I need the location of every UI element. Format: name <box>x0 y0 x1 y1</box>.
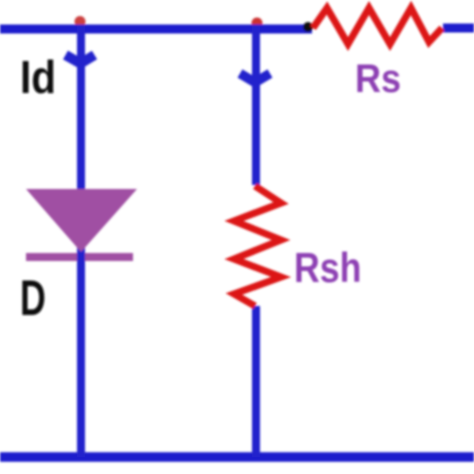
svg-text:Rsh: Rsh <box>294 245 361 291</box>
diode D cathode bar <box>26 253 133 261</box>
svg-text:Rs: Rs <box>355 57 401 101</box>
node junction dot (red) at D branch <box>75 16 86 27</box>
wire: vertical branch of Rsh (lower segment) <box>252 306 260 457</box>
resistor Rsh (vertical zigzag) <box>234 186 281 306</box>
wire: vertical branch of diode D <box>77 25 85 457</box>
svg-text:Id: Id <box>20 53 56 104</box>
wire: vertical branch of Rsh (upper segment) <box>252 25 260 185</box>
node dot (black) at Rs left terminal <box>303 22 313 32</box>
diode D triangle (anode) <box>26 189 137 252</box>
current arrow Id (down) on diode branch <box>66 55 95 64</box>
resistor Rs (horizontal zigzag) <box>313 8 442 44</box>
current arrow (down) on Rsh branch <box>240 74 270 83</box>
wire: top horizontal right of Rs <box>443 24 474 33</box>
node junction dot (red) at Rsh branch <box>252 18 263 29</box>
svg-text:D: D <box>20 271 46 326</box>
wire: bottom horizontal bus <box>0 452 474 462</box>
wire: top horizontal bus (left section to Rs) <box>0 25 312 34</box>
